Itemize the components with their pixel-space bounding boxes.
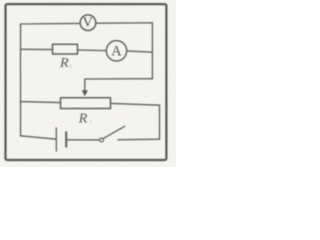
wire ammeter to right vertical [127,51,152,52]
ammeter A [106,41,126,61]
wire battery to switch [66,139,99,141]
switch S [100,126,125,142]
svg-text:A: A [111,43,122,59]
svg-text:R: R [59,56,69,71]
slider arrowhead [82,90,88,96]
wire top right [96,22,152,24]
label R1 [59,56,72,71]
wire left vertical [20,24,22,136]
rheostat R2 [61,98,111,109]
voltmeter V [80,15,96,31]
wire slider arm [85,79,153,92]
wire R1 to ammeter [78,49,107,52]
label R2 [78,111,93,126]
wire rheostat row left [21,102,61,103]
wire bottom right [118,138,160,141]
wire bottom left [21,136,57,139]
svg-text:R: R [78,111,88,126]
wire right vertical lower [159,105,161,139]
wire rheostat row right [111,103,160,105]
resistor R1 [53,44,78,54]
svg-text:V: V [83,16,93,31]
battery [56,128,66,151]
wire R1 row left [21,48,53,50]
wire top left [21,22,81,25]
wire right vertical upper [151,23,153,79]
